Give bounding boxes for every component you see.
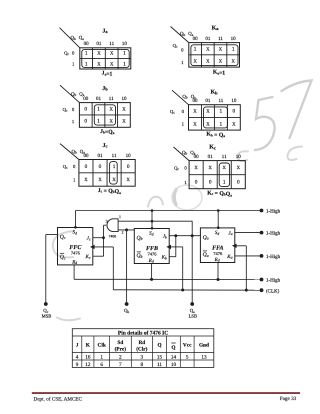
svg-text:7476: 7476 xyxy=(71,251,81,256)
svg-text:Jc = QbQa: Jc = QbQa xyxy=(98,188,121,195)
svg-text:11: 11 xyxy=(109,96,114,102)
svg-text:Dept. of CSE, AMCEC: Dept. of CSE, AMCEC xyxy=(34,396,83,402)
svg-text:1: 1 xyxy=(100,354,103,360)
terminal Qb xyxy=(124,302,129,314)
svg-text:Qc: Qc xyxy=(170,109,175,115)
svg-text:(CLK): (CLK) xyxy=(266,288,280,294)
svg-text:1: 1 xyxy=(220,109,223,115)
svg-text:3: 3 xyxy=(106,220,108,224)
svg-text:1: 1 xyxy=(97,106,100,112)
svg-text:(Clr): (Clr) xyxy=(136,346,147,352)
svg-text:2: 2 xyxy=(122,231,124,235)
terminal 1-High (Sd rail) xyxy=(260,209,281,215)
svg-text:0: 0 xyxy=(84,119,87,125)
svg-text:Rd: Rd xyxy=(71,259,77,265)
svg-text:Qc: Qc xyxy=(63,164,68,170)
svg-text:01: 01 xyxy=(96,41,102,47)
svg-text:10: 10 xyxy=(126,153,132,159)
svg-text:Qc: Qc xyxy=(174,166,179,172)
svg-text:00: 00 xyxy=(194,154,200,160)
svg-text:(Pre): (Pre) xyxy=(115,346,127,352)
svg-text:7476: 7476 xyxy=(147,252,157,257)
svg-text:1: 1 xyxy=(113,164,116,170)
wire FFA Sd riser xyxy=(217,209,220,229)
svg-text:MSB: MSB xyxy=(42,313,52,318)
svg-text:Qa: Qa xyxy=(79,35,84,41)
svg-text:X: X xyxy=(110,119,114,125)
terminal 1-High (Ja) xyxy=(260,231,281,237)
terminal Qa LSB xyxy=(189,302,197,318)
svg-text:Ja: Ja xyxy=(228,231,232,237)
svg-text:10: 10 xyxy=(231,36,237,42)
svg-text:10: 10 xyxy=(236,154,242,160)
svg-text:1: 1 xyxy=(194,46,197,52)
svg-text:Page 33: Page 33 xyxy=(280,396,297,402)
svg-text:Rd: Rd xyxy=(214,257,220,263)
svg-text:01: 01 xyxy=(205,36,211,42)
svg-text:10: 10 xyxy=(121,96,127,102)
footer rule xyxy=(32,392,300,394)
svg-text:1: 1 xyxy=(97,119,100,125)
svg-text:Qc: Qc xyxy=(60,235,66,241)
pin details table for 7476 IC xyxy=(72,329,214,368)
svg-text:10: 10 xyxy=(171,362,177,368)
svg-text:01: 01 xyxy=(208,154,214,160)
svg-text:X: X xyxy=(112,177,116,183)
svg-text:00: 00 xyxy=(83,96,89,102)
Rd clear rail xyxy=(74,278,261,280)
terminal (CLK) xyxy=(260,288,280,294)
terminal 1-High (Rd rail) xyxy=(260,278,281,284)
svg-text:14: 14 xyxy=(171,354,177,360)
svg-text:Qb: Qb xyxy=(124,308,129,314)
svg-text:15: 15 xyxy=(157,354,163,360)
wire Kb tie jog xyxy=(169,236,176,257)
K-map Kb xyxy=(170,90,240,139)
node Qa feedback rail to gate pin 1 xyxy=(118,215,192,223)
svg-text:Qc: Qc xyxy=(173,43,178,49)
K-map Kc xyxy=(174,145,246,198)
svg-text:Jb: Jb xyxy=(163,234,167,240)
svg-text:01: 01 xyxy=(96,96,102,102)
wire FFB Sd riser xyxy=(151,209,154,229)
svg-text:0: 0 xyxy=(195,179,198,185)
svg-text:0: 0 xyxy=(99,164,102,170)
svg-text:Qa: Qa xyxy=(203,235,209,241)
wire FFC Rd drop xyxy=(73,265,75,279)
svg-text:1-High: 1-High xyxy=(266,209,281,215)
svg-text:1: 1 xyxy=(85,51,88,57)
svg-text:1-High: 1-High xyxy=(266,231,281,237)
wire Kc xyxy=(93,255,104,257)
svg-text:4: 4 xyxy=(76,354,79,360)
svg-text:Sd: Sd xyxy=(149,231,154,237)
svg-text:1: 1 xyxy=(232,46,235,52)
svg-text:1: 1 xyxy=(220,121,223,127)
svg-text:Rd: Rd xyxy=(148,258,154,264)
svg-text:Clk: Clk xyxy=(98,342,106,348)
svg-text:Sd: Sd xyxy=(215,230,220,236)
svg-text:Ka: Ka xyxy=(212,26,220,32)
svg-text:Qa: Qa xyxy=(203,252,209,258)
svg-text:Kb = Qa: Kb = Qa xyxy=(206,132,225,139)
flip-flop FFC (7476) xyxy=(58,228,95,266)
top 1-High rail (Sd preset rail) xyxy=(76,210,262,212)
svg-text:2: 2 xyxy=(119,354,122,360)
clock rail xyxy=(113,289,261,291)
svg-text:8: 8 xyxy=(141,362,144,368)
wire FFA clock tap xyxy=(235,246,248,292)
svg-text:X: X xyxy=(110,106,114,112)
wire Jc xyxy=(93,236,105,239)
svg-text:3: 3 xyxy=(141,354,144,360)
svg-text:J: J xyxy=(76,342,79,348)
svg-text:00: 00 xyxy=(84,41,90,47)
wire Qa riser to LSB terminal xyxy=(191,221,193,304)
svg-text:Qc: Qc xyxy=(63,107,68,113)
K-map Jb xyxy=(60,85,130,135)
svg-text:7408: 7408 xyxy=(109,234,117,238)
wire 7408 input pin 2 from Qb xyxy=(118,228,134,231)
wire Ka to 1-High xyxy=(235,255,262,257)
svg-text:Qb: Qb xyxy=(137,236,143,242)
svg-text:Vcc: Vcc xyxy=(183,342,192,348)
wire FFC clock tap xyxy=(93,247,114,290)
svg-text:5: 5 xyxy=(186,354,189,360)
terminal Qc MSB xyxy=(42,302,52,318)
svg-text:11: 11 xyxy=(218,98,223,104)
svg-text:Kc: Kc xyxy=(209,145,216,151)
wire Qb riser to terminal xyxy=(126,230,128,304)
svg-text:Jc: Jc xyxy=(87,236,91,242)
svg-text:Qb: Qb xyxy=(180,31,185,37)
svg-text:0: 0 xyxy=(127,164,130,170)
K-map Ja xyxy=(60,28,131,78)
svg-text:Qc: Qc xyxy=(60,255,66,261)
svg-text:Qb: Qb xyxy=(137,253,143,259)
svg-text:Kb: Kb xyxy=(161,255,167,261)
svg-text:Ka=1: Ka=1 xyxy=(213,70,225,77)
wire Jb from Qa xyxy=(169,234,200,237)
svg-text:10: 10 xyxy=(231,98,237,104)
svg-text:11: 11 xyxy=(112,153,117,159)
svg-text:0: 0 xyxy=(84,106,87,112)
terminal 1-High (Ka) xyxy=(260,254,281,260)
svg-text:X: X xyxy=(237,165,241,171)
svg-text:LSB: LSB xyxy=(189,313,197,318)
svg-text:Q: Q xyxy=(157,342,161,348)
svg-text:1-High: 1-High xyxy=(266,254,281,260)
svg-text:9: 9 xyxy=(76,362,79,368)
svg-text:X: X xyxy=(193,59,197,65)
svg-text:11: 11 xyxy=(109,41,114,47)
svg-text:X: X xyxy=(232,121,236,127)
svg-text:Q: Q xyxy=(171,345,175,351)
svg-text:Ka: Ka xyxy=(226,254,232,260)
wire Ja to 1-High xyxy=(235,232,262,234)
svg-text:Kc: Kc xyxy=(84,254,90,260)
flip-flop FFA (7476) xyxy=(200,228,236,263)
svg-text:Kb: Kb xyxy=(210,90,218,96)
svg-text:13: 13 xyxy=(201,354,207,360)
svg-text:0: 0 xyxy=(232,109,235,115)
svg-text:Ja: Ja xyxy=(102,29,108,35)
watermark strokes (light gray scan watermark) xyxy=(53,81,312,321)
svg-text:0: 0 xyxy=(209,179,212,185)
svg-text:00: 00 xyxy=(83,153,89,159)
svg-text:Pin details of 7476 IC: Pin details of 7476 IC xyxy=(118,330,168,336)
svg-text:16: 16 xyxy=(85,354,91,360)
svg-text:Ja=1: Ja=1 xyxy=(102,71,113,78)
svg-text:11: 11 xyxy=(222,154,227,160)
svg-text:10: 10 xyxy=(122,41,128,47)
K-map Ka xyxy=(171,26,240,77)
svg-text:11: 11 xyxy=(157,362,162,368)
svg-text:0: 0 xyxy=(85,164,88,170)
svg-text:Rd: Rd xyxy=(138,340,145,346)
svg-text:Jc: Jc xyxy=(103,143,108,149)
svg-text:1: 1 xyxy=(85,61,88,67)
wire Qc output to MSB terminal xyxy=(46,235,58,305)
svg-text:Qc: Qc xyxy=(64,50,69,56)
svg-text:Gnd: Gnd xyxy=(199,342,209,348)
svg-text:11: 11 xyxy=(218,36,223,42)
svg-text:X: X xyxy=(98,177,102,183)
svg-text:7476: 7476 xyxy=(213,251,223,256)
svg-text:Qb: Qb xyxy=(182,94,187,100)
svg-text:1: 1 xyxy=(223,179,226,185)
svg-text:1-High: 1-High xyxy=(266,278,281,284)
svg-text:00: 00 xyxy=(192,98,198,104)
AND gate U1 7408 (points left) xyxy=(106,219,124,239)
K-map Jc xyxy=(60,143,135,195)
svg-text:01: 01 xyxy=(205,98,211,104)
svg-text:Jb: Jb xyxy=(102,86,108,92)
wire FFB Rd drop xyxy=(150,264,153,281)
flip-flop FFB (7476) xyxy=(134,229,171,264)
svg-text:01: 01 xyxy=(98,153,104,159)
svg-text:12: 12 xyxy=(85,362,91,368)
svg-text:0: 0 xyxy=(237,179,240,185)
wire FFC Sd riser xyxy=(74,211,77,229)
svg-text:1: 1 xyxy=(119,215,121,219)
svg-text:1: 1 xyxy=(123,51,126,57)
wire FFB clock tap xyxy=(169,247,184,292)
svg-text:6: 6 xyxy=(100,362,103,368)
wire 7408 output to Jc/Kc tie xyxy=(104,225,107,256)
svg-text:00: 00 xyxy=(193,36,199,42)
svg-text:7: 7 xyxy=(119,362,122,368)
svg-text:Jb=Qa: Jb=Qa xyxy=(100,129,115,136)
svg-text:Sd: Sd xyxy=(117,340,123,346)
svg-text:Sd: Sd xyxy=(72,230,77,236)
svg-text:Qb: Qb xyxy=(71,35,76,41)
wire FFA Rd drop xyxy=(217,263,220,282)
svg-text:1: 1 xyxy=(123,61,126,67)
